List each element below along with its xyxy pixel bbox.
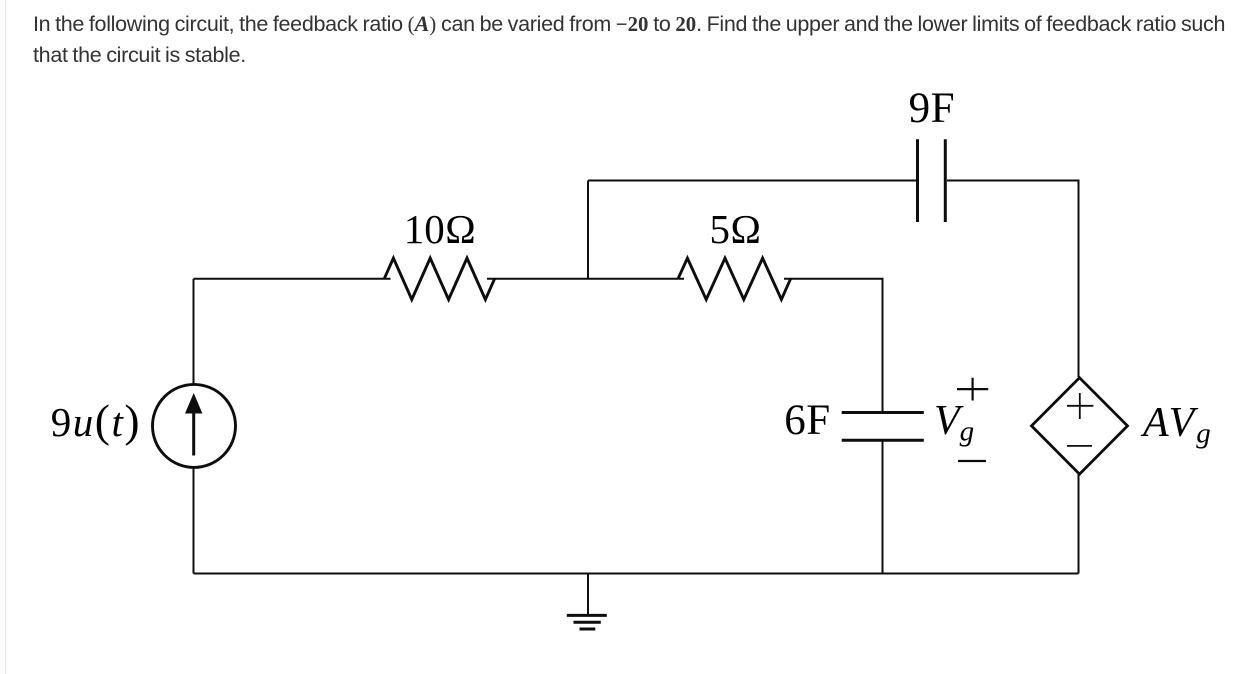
wire right rail lower [1078, 474, 1080, 574]
resistor R 5ohm zigzag [678, 258, 791, 299]
plus sign of Vg [957, 378, 988, 401]
wire top horizontal right of 9F with corner down to diamond [947, 181, 1079, 378]
ground stem [587, 574, 589, 615]
ground bars [567, 615, 607, 629]
current source arrow head [185, 393, 202, 414]
capacitor C 6F plates [842, 413, 924, 441]
capacitor C 9F plates [918, 139, 946, 222]
svg-text:9u(t): 9u(t) [51, 395, 141, 446]
wire top-left horizontal [194, 278, 391, 280]
wire top horizontal left of 9F [588, 180, 916, 182]
wire bottom horizontal [194, 573, 1079, 575]
svg-text:9F: 9F [909, 85, 955, 132]
left panel border line [5, 0, 6, 674]
plus sign inside diamond [1067, 393, 1093, 419]
wire left rail lower [193, 467, 195, 574]
svg-text:Vg: Vg [934, 398, 974, 448]
current source I1 circle [153, 384, 236, 467]
problem statement paragraph [33, 8, 1240, 72]
svg-text:AVg: AVg [1140, 400, 1213, 450]
wire between resistors [487, 278, 684, 280]
wire junction vertical up [587, 181, 589, 279]
minus sign of Vg [958, 460, 986, 462]
svg-text:5Ω: 5Ω [710, 206, 762, 252]
resistor R 10ohm zigzag [384, 258, 494, 299]
wire left rail upper [193, 279, 195, 385]
svg-text:6F: 6F [784, 397, 830, 444]
dependent source E1 diamond [1032, 378, 1128, 474]
current source arrow shaft [192, 413, 195, 456]
wire below 6F [882, 442, 884, 574]
svg-text:10Ω: 10Ω [404, 206, 477, 252]
wire right of 5ohm with corner down to 6F [784, 279, 883, 411]
minus sign inside diamond [1067, 445, 1092, 447]
